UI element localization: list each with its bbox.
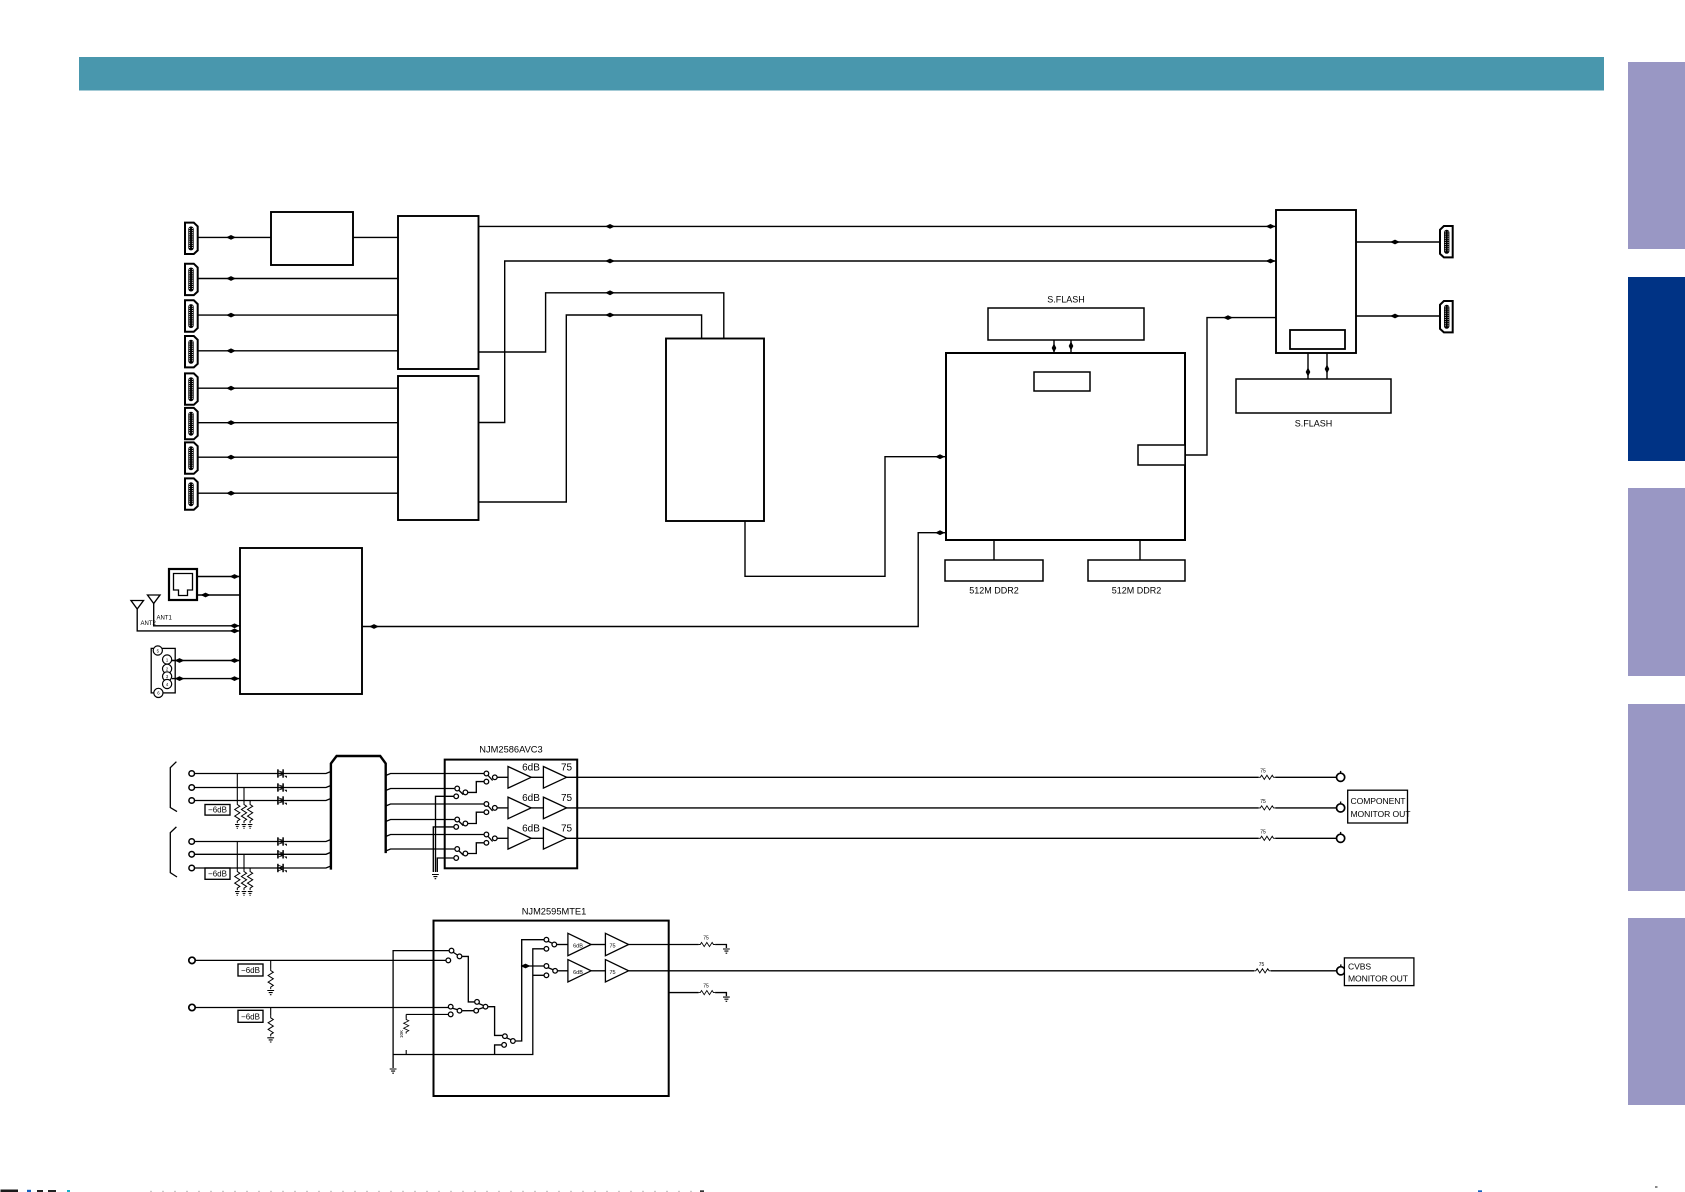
svg-text:75: 75 [1260,768,1266,774]
svg-text:6dB: 6dB [573,970,583,976]
svg-text:S.FLASH: S.FLASH [1047,295,1085,305]
svg-text:6dB: 6dB [522,793,540,804]
svg-text:ANT1: ANT1 [157,616,173,622]
svg-text:75: 75 [1259,962,1265,968]
svg-text:S.FLASH: S.FLASH [1295,419,1333,429]
svg-text:6dB: 6dB [522,824,540,835]
svg-text:75: 75 [609,944,615,950]
svg-text:75: 75 [1260,829,1266,835]
svg-text:512M DDR2: 512M DDR2 [969,586,1019,596]
svg-text:6dB: 6dB [573,944,583,950]
svg-text:6dB: 6dB [522,763,540,774]
svg-text:NJM2586AVC3: NJM2586AVC3 [479,745,542,755]
svg-text:−6dB: −6dB [208,870,227,879]
svg-text:75: 75 [561,793,573,804]
svg-text:COMPONENT: COMPONENT [1351,796,1407,806]
svg-text:75: 75 [703,936,709,942]
svg-text:MONITOR OUT: MONITOR OUT [1348,974,1409,984]
svg-text:75: 75 [561,763,573,774]
svg-text:75: 75 [561,824,573,835]
svg-text:MONITOR OUT: MONITOR OUT [1351,809,1412,819]
svg-text:CVBS: CVBS [1348,962,1371,972]
svg-text:−6dB: −6dB [208,806,227,815]
svg-text:ANT2: ANT2 [141,621,157,627]
svg-text:512M DDR2: 512M DDR2 [1112,586,1162,596]
svg-text:10K: 10K [399,1030,404,1038]
svg-text:−6dB: −6dB [241,966,260,975]
svg-text:75: 75 [1260,799,1266,805]
svg-text:75: 75 [703,984,709,990]
svg-text:NJM2595MTE1: NJM2595MTE1 [522,907,587,917]
svg-text:−6dB: −6dB [241,1012,260,1021]
svg-text:75: 75 [609,970,615,976]
